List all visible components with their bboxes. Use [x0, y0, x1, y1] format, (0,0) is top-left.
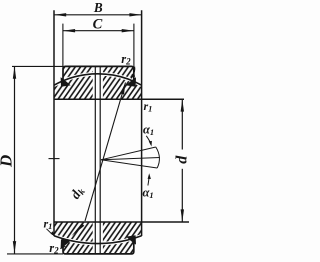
- inner ring right face + B extension: [141, 10, 143, 236]
- dimension line B: [54, 14, 142, 16]
- svg-text:C: C: [93, 17, 103, 33]
- alpha1 lower leader arrow: [148, 177, 149, 186]
- white gap around outer-ring split, bottom band: [93, 223, 103, 254]
- outer ring split line right: [99, 67, 101, 254]
- arrow C left: [63, 29, 75, 32]
- arrow D top: [13, 66, 16, 78]
- arrow C right: [122, 29, 134, 32]
- corner chamfer blob top-left: [61, 77, 71, 87]
- outer+inner ring bottom cross-section hatch: [54, 222, 142, 254]
- bore surface top + d extension: [54, 98, 184, 100]
- bore surface bottom + d extension: [54, 221, 189, 223]
- C extension line left: [62, 24, 64, 67]
- white gap around outer-ring split, top band: [93, 67, 103, 98]
- outer ring outline, bottom: [63, 239, 134, 254]
- C extension line right: [133, 24, 135, 67]
- dk diameter line: [85, 83, 126, 222]
- arrow d top: [181, 99, 184, 111]
- dimension line d (broken for label): [181, 100, 183, 150]
- outer+inner ring top cross-section hatch: [54, 66, 142, 99]
- alpha fan lower line: [101, 160, 157, 168]
- D extension line, bottom: [7, 253, 63, 255]
- alpha1 upper leader arrow: [146, 136, 151, 145]
- corner chamfer blob bottom-left: [61, 239, 71, 248]
- inner ring left face + B extension: [53, 10, 55, 236]
- outer ring split line left: [94, 67, 96, 254]
- D extension line, top: [12, 65, 63, 67]
- arrow B right: [129, 13, 141, 16]
- dk arrowhead upper: [120, 83, 125, 95]
- centerline tick at left face: [49, 158, 60, 160]
- dimension line D: [14, 66, 16, 254]
- corner chamfer blob bottom-right: [126, 235, 136, 244]
- sphere surface arc, top (white casing): [54, 74, 142, 85]
- outer ring outline, top (OD surface + faces, rounded r2 corners): [63, 66, 134, 81]
- dk arrowhead lower: [72, 223, 85, 236]
- svg-text:B: B: [93, 0, 103, 15]
- sphere surface arc, bottom: [54, 236, 142, 244]
- r1 bottom leader: [47, 229, 53, 235]
- alpha fan middle line: [101, 158, 160, 160]
- svg-text:D: D: [0, 155, 16, 168]
- r2 bottom leader: [60, 246, 65, 249]
- label dk: [67, 183, 88, 202]
- r2 top leader: [132, 67, 135, 76]
- dimension line C: [63, 30, 134, 32]
- alpha fan upper line: [101, 147, 156, 160]
- svg-text:d: d: [173, 155, 190, 164]
- arrow B left: [54, 13, 66, 16]
- sphere surface arc, top: [54, 74, 142, 85]
- sphere surface arc, bottom (white casing): [54, 236, 142, 244]
- arrow d bottom: [181, 209, 184, 221]
- arrow D bottom: [13, 241, 16, 253]
- corner chamfer blob top-right: [126, 77, 136, 87]
- alpha fan end arc: [156, 147, 160, 168]
